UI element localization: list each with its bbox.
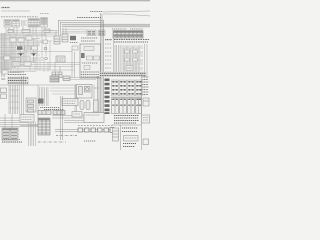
left connector block	[26, 98, 36, 112]
right small stamp box	[143, 139, 149, 145]
title FIG label	[2, 7, 11, 9]
connector pin grid cells	[112, 81, 141, 95]
junction box J3	[24, 62, 31, 66]
bottom-left table	[2, 128, 18, 140]
lower-left text block rows	[44, 109, 64, 111]
component box T7	[63, 76, 96, 81]
chain fuse 4	[98, 128, 103, 132]
chain labels	[78, 125, 113, 127]
component box M5	[52, 72, 62, 78]
left mesh fine wires	[0, 31, 58, 73]
relay assembly label	[94, 87, 100, 89]
relay box K1 (dark)	[17, 46, 23, 50]
double trunk bottom center	[61, 96, 63, 140]
connector table C2	[13, 20, 20, 28]
left vertical bus	[2, 33, 7, 77]
small cylinder component 1	[80, 101, 84, 110]
main vertical trunk	[98, 13, 104, 116]
top right small label text	[90, 11, 103, 13]
text row under boxes	[45, 30, 54, 32]
pin header text row over connector grid	[99, 72, 147, 77]
component box M2	[62, 34, 68, 42]
right small box B1	[125, 50, 130, 53]
subtitle text row	[2, 11, 50, 14]
header label text row	[1, 16, 101, 19]
tall narrow box	[94, 100, 99, 112]
right small box B4	[133, 58, 138, 61]
fuse block tall box 4	[136, 98, 142, 114]
bus band shading	[62, 24, 150, 28]
bottom center box	[84, 113, 104, 123]
right harness hatch	[115, 45, 120, 76]
U1 header text	[81, 38, 98, 41]
junction box J2	[12, 62, 20, 66]
right small box B2	[133, 50, 138, 53]
right label column	[143, 77, 149, 95]
relay K4	[72, 46, 78, 50]
bottom label box 2	[72, 112, 82, 118]
U1 inner box 1	[84, 47, 94, 51]
left harness hatch band	[9, 85, 19, 114]
connector pin grid	[112, 80, 143, 96]
left mesh vertical wires	[10, 34, 50, 70]
right small box B3	[125, 58, 130, 61]
label under M3	[70, 42, 78, 44]
U1 text row	[82, 62, 98, 64]
connector table C3	[28, 19, 40, 28]
dash-dot ground line	[38, 136, 77, 143]
right header band text	[112, 28, 143, 30]
fuse block tall box 2	[120, 98, 127, 114]
wire risers under tables	[6, 26, 45, 36]
trunk pin labels	[105, 40, 112, 72]
component table T6	[50, 76, 59, 82]
right component box B5	[126, 66, 133, 71]
component chain wire	[55, 130, 114, 132]
junction box J1	[4, 56, 10, 60]
connector table C1	[4, 20, 12, 28]
connector table C4	[41, 18, 48, 28]
fuse block tall box 1	[112, 98, 119, 114]
component box M3 (dark)	[70, 36, 76, 40]
vertical divider right	[141, 74, 143, 150]
U1 inner box 4	[84, 66, 90, 70]
dark module box	[38, 99, 44, 104]
long horizontal wire mid	[0, 85, 78, 94]
connector label block	[21, 21, 27, 25]
secondary vertical wire	[113, 38, 115, 76]
dense connector strip bottom-center-left	[38, 111, 65, 115]
fuse box F2	[18, 38, 24, 42]
U1 bottom text rows	[81, 72, 99, 77]
fuse box F1	[10, 38, 16, 42]
dense block bottom-center-left	[38, 118, 50, 135]
relay assembly box	[76, 85, 92, 99]
component box M1	[54, 36, 60, 44]
bottom wires left	[0, 114, 38, 128]
bottom-left text rows	[2, 140, 22, 143]
control unit U1 outline	[80, 44, 101, 78]
chain fuse 6	[110, 128, 114, 133]
bottom harness hatch band	[29, 122, 36, 146]
legend bottom rows	[123, 144, 136, 147]
wires to relay assembly	[75, 85, 94, 113]
center harness hatch band	[40, 87, 49, 106]
bottom left label box	[20, 115, 34, 123]
bottom center wires	[52, 116, 84, 123]
right band text rows	[105, 40, 149, 43]
junction box J4	[2, 70, 8, 74]
legend rows	[122, 128, 138, 132]
right side box	[143, 98, 149, 106]
relay box K3	[32, 46, 38, 50]
wide component box	[62, 99, 78, 106]
U1 switch S1 (dark)	[81, 53, 85, 58]
legend divider	[112, 125, 142, 150]
left mesh horizontal wires	[0, 34, 80, 70]
chain fuse 5	[104, 128, 109, 132]
center vertical risers from bus	[56, 28, 66, 36]
wire vertical drops center	[55, 50, 75, 78]
inner connector grid A1	[87, 30, 96, 36]
long bus wires	[62, 25, 150, 33]
text row under hatch	[40, 107, 60, 109]
left small box pair	[1, 88, 7, 99]
sensor box S2	[43, 40, 48, 44]
left vertical wires mid	[22, 76, 39, 120]
U1 inner box 2	[87, 56, 93, 60]
chain fuse 1	[78, 128, 83, 132]
small cylinder component 2	[86, 101, 90, 110]
fuse box F3	[26, 36, 32, 40]
left harness label text	[2, 77, 30, 85]
diode D2	[31, 54, 37, 63]
legend inner box	[124, 136, 139, 142]
right dense connector table	[113, 31, 143, 39]
fuse block tall box 3	[128, 98, 135, 114]
chain fuse 2	[85, 128, 90, 132]
inner connector grid A2	[98, 30, 105, 36]
page background	[0, 0, 150, 150]
bottom-right legend header rows	[114, 116, 139, 124]
relay box K2	[25, 46, 31, 50]
enclosure box A top border	[58, 20, 103, 40]
U1 inner box 3	[94, 56, 100, 60]
connector ring X1	[44, 47, 47, 50]
legend left grid	[113, 128, 119, 141]
diode D1	[18, 54, 24, 63]
bottom small marks	[84, 140, 96, 142]
right mesh fine wires	[121, 46, 143, 72]
connector label strip	[8, 72, 26, 75]
small junction boxes row	[8, 29, 50, 33]
right mesh wires	[121, 44, 147, 76]
trunk pin squares	[105, 79, 110, 115]
chain fuse 3	[91, 128, 96, 132]
long top-right wires	[103, 11, 150, 16]
right top info box	[142, 115, 150, 123]
connector ring X2	[45, 57, 48, 60]
component box M4	[56, 56, 65, 62]
